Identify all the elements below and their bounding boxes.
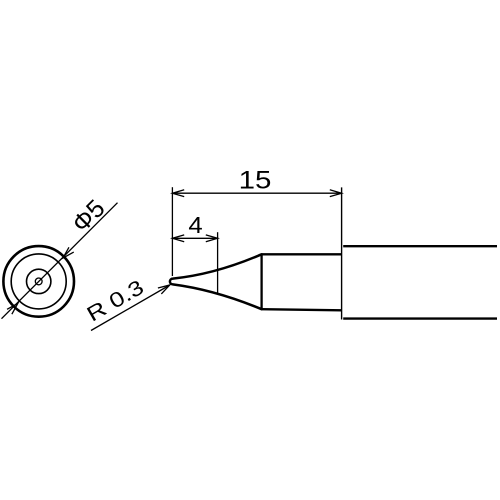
cylinder bottom line — [262, 309, 342, 310]
svg-text:4: 4 — [188, 212, 203, 238]
svg-text:R 0.3: R 0.3 — [83, 276, 148, 327]
dimension 15 line — [172, 192, 341, 194]
svg-text:15: 15 — [239, 167, 272, 195]
shaft left vertical extension line — [341, 187, 343, 319]
dimension 4 right arrow — [206, 235, 218, 242]
tip profile with rounded nose — [170, 254, 262, 309]
shaft top line — [343, 245, 497, 247]
front view inner circle — [27, 269, 51, 293]
svg-text:Φ5: Φ5 — [67, 194, 111, 238]
leader arrow R0.3 — [158, 282, 172, 294]
dimension 4 right extension line — [217, 232, 219, 294]
tip shoulder vertical line — [260, 254, 262, 309]
dimension 4 left arrow — [172, 235, 184, 242]
front view outer circle — [3, 246, 74, 317]
dimension 4 line — [172, 237, 217, 239]
front view center tiny circle — [35, 278, 42, 285]
left extension line — [171, 187, 173, 276]
diameter arrow bottom-left — [7, 301, 20, 314]
dimension 15 left arrow — [172, 190, 184, 197]
front view middle circle — [11, 254, 66, 309]
leader line R0.3 — [91, 285, 170, 331]
diameter dimension line phi5 — [2, 203, 118, 319]
cylinder top line — [262, 253, 342, 255]
dimension 15 right arrow — [330, 190, 342, 197]
shaft bottom line — [343, 317, 497, 319]
diameter arrow top-right — [61, 247, 74, 260]
